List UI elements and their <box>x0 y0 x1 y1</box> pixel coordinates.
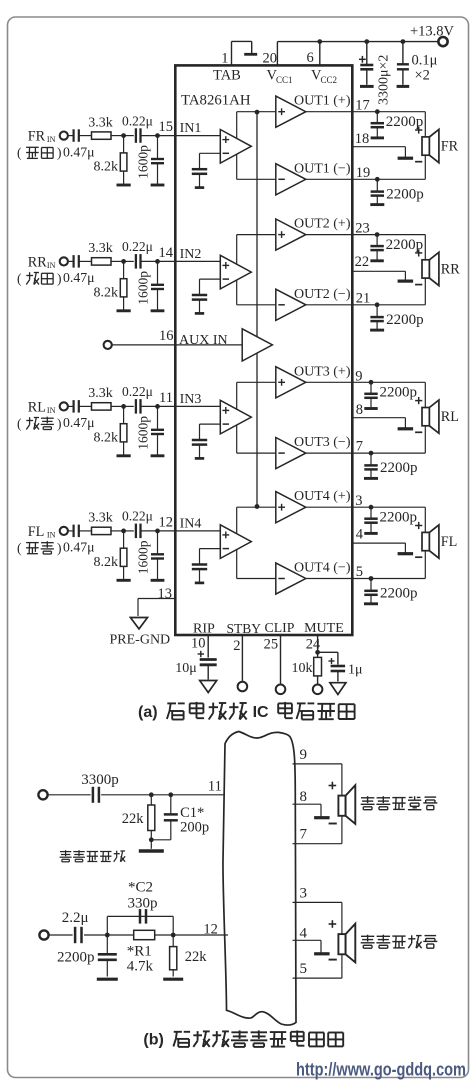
svg-text:11: 11 <box>159 390 173 406</box>
svg-text:(b): (b) <box>143 1032 163 1049</box>
svg-text:(a): (a) <box>138 704 158 721</box>
svg-text:*C2: *C2 <box>128 880 153 896</box>
svg-text:RIP: RIP <box>193 622 215 637</box>
svg-text:14: 14 <box>159 245 174 261</box>
svg-text:RL: RL <box>441 409 459 425</box>
svg-text:4.7k: 4.7k <box>127 959 154 975</box>
svg-text:0.47μ: 0.47μ <box>63 540 95 555</box>
svg-text:): ) <box>57 271 62 286</box>
svg-text:TAB: TAB <box>213 68 241 84</box>
svg-text:STBY: STBY <box>227 621 262 636</box>
svg-text:2: 2 <box>233 638 240 654</box>
svg-text:OUT2 (+): OUT2 (+) <box>294 217 351 232</box>
svg-text:(: ( <box>17 540 22 555</box>
svg-text:7: 7 <box>300 827 308 843</box>
svg-text:FR: FR <box>28 129 46 145</box>
svg-text:IN: IN <box>47 530 56 539</box>
svg-text:8: 8 <box>356 402 363 418</box>
svg-text:http://www.go-gddq.com: http://www.go-gddq.com <box>296 1060 466 1080</box>
svg-text:RR: RR <box>441 261 460 277</box>
svg-text:8: 8 <box>300 789 308 805</box>
svg-text:1μ: 1μ <box>348 663 363 678</box>
svg-text:9: 9 <box>300 747 308 763</box>
svg-text:2200p: 2200p <box>57 950 95 966</box>
svg-text:24: 24 <box>306 637 321 653</box>
svg-text:): ) <box>57 416 62 431</box>
svg-text:IN1: IN1 <box>180 121 202 136</box>
svg-text:22: 22 <box>355 254 370 270</box>
svg-text:22k: 22k <box>185 949 208 965</box>
svg-text:CC1: CC1 <box>276 75 293 85</box>
svg-text:OUT1 (−): OUT1 (−) <box>294 161 351 176</box>
svg-text:8.2k: 8.2k <box>94 555 119 570</box>
svg-text:1600p: 1600p <box>135 271 150 305</box>
svg-text:1600p: 1600p <box>135 145 150 179</box>
svg-text:3: 3 <box>300 885 308 901</box>
svg-text:15: 15 <box>159 119 174 135</box>
svg-text:OUT3 (−): OUT3 (−) <box>294 435 351 450</box>
svg-text:FR: FR <box>441 138 459 154</box>
svg-text:7: 7 <box>356 439 363 455</box>
svg-text:2200p: 2200p <box>380 460 418 476</box>
svg-text:17: 17 <box>355 98 370 114</box>
svg-text:2200p: 2200p <box>386 186 424 202</box>
svg-text:IN: IN <box>47 406 56 415</box>
svg-text:8.2k: 8.2k <box>94 430 119 445</box>
svg-text:(: ( <box>17 271 22 286</box>
svg-text:5: 5 <box>356 564 363 580</box>
svg-text:10: 10 <box>191 636 206 652</box>
svg-text:IN: IN <box>47 135 56 144</box>
svg-text:IN: IN <box>47 261 56 270</box>
svg-text:22k: 22k <box>122 811 145 827</box>
svg-text:23: 23 <box>355 221 370 237</box>
svg-text:RR: RR <box>28 254 47 270</box>
svg-text:IN2: IN2 <box>180 247 202 262</box>
svg-text:FL: FL <box>441 534 458 550</box>
svg-text:13: 13 <box>158 586 173 602</box>
svg-text:IC: IC <box>253 704 269 721</box>
svg-text:12: 12 <box>159 515 174 531</box>
svg-text:OUT2 (−): OUT2 (−) <box>294 287 351 302</box>
svg-text:3: 3 <box>355 493 362 509</box>
svg-text:10μ: 10μ <box>175 661 197 676</box>
svg-text:2200p: 2200p <box>380 385 418 401</box>
svg-text:CLIP: CLIP <box>265 620 295 635</box>
svg-text:IN4: IN4 <box>180 516 202 531</box>
svg-text:11: 11 <box>208 779 222 795</box>
svg-text:21: 21 <box>356 290 371 306</box>
svg-text:×2: ×2 <box>415 68 430 84</box>
svg-text:0.22μ: 0.22μ <box>122 113 153 128</box>
svg-text:1600p: 1600p <box>135 540 150 574</box>
svg-text:330p: 330p <box>128 896 158 912</box>
svg-text:8.2k: 8.2k <box>94 285 119 300</box>
svg-text:3300p: 3300p <box>81 772 119 788</box>
svg-text:3300μ×2: 3300μ×2 <box>377 55 392 105</box>
svg-text:0.47μ: 0.47μ <box>63 144 95 159</box>
svg-text:IN3: IN3 <box>180 392 202 407</box>
svg-text:4: 4 <box>300 925 308 941</box>
svg-text:18: 18 <box>355 131 370 147</box>
svg-text:1600p: 1600p <box>135 416 150 450</box>
svg-text:OUT1 (+): OUT1 (+) <box>294 94 351 109</box>
svg-text:MUTE: MUTE <box>304 621 344 636</box>
svg-text:0.47μ: 0.47μ <box>63 270 95 285</box>
svg-text:2.2μ: 2.2μ <box>62 910 89 926</box>
svg-text:PRE-GND: PRE-GND <box>110 633 171 648</box>
svg-text:10k: 10k <box>292 661 313 676</box>
svg-text:3.3k: 3.3k <box>88 511 113 526</box>
svg-text:19: 19 <box>356 165 371 181</box>
svg-text:OUT3 (+): OUT3 (+) <box>294 364 351 379</box>
svg-text:2200p: 2200p <box>380 510 418 526</box>
svg-text:OUT4 (−): OUT4 (−) <box>294 561 351 576</box>
svg-text:2200p: 2200p <box>386 312 424 328</box>
svg-text:+13.8V: +13.8V <box>410 24 455 40</box>
svg-text:0.1μ: 0.1μ <box>412 53 438 69</box>
svg-text:*R1: *R1 <box>127 944 152 960</box>
svg-text:2200p: 2200p <box>380 586 418 602</box>
svg-text:12: 12 <box>203 922 218 938</box>
svg-text:9: 9 <box>355 368 362 384</box>
svg-text:25: 25 <box>264 637 279 653</box>
svg-text:AUX IN: AUX IN <box>179 333 228 348</box>
svg-text:4: 4 <box>356 527 364 543</box>
svg-text:16: 16 <box>159 328 174 344</box>
svg-text:6: 6 <box>307 50 314 66</box>
svg-text:(: ( <box>17 416 22 431</box>
svg-text:): ) <box>57 540 62 555</box>
svg-text:5: 5 <box>300 961 308 977</box>
svg-text:(: ( <box>17 145 22 160</box>
svg-text:2200p: 2200p <box>386 237 424 253</box>
svg-text:FL: FL <box>28 524 45 540</box>
svg-text:): ) <box>57 145 62 160</box>
svg-text:0.47μ: 0.47μ <box>63 415 95 430</box>
svg-text:3.3k: 3.3k <box>88 386 113 401</box>
svg-text:CC2: CC2 <box>321 75 338 85</box>
svg-text:200p: 200p <box>180 820 209 836</box>
svg-text:RL: RL <box>28 399 46 415</box>
svg-text:TA8261AH: TA8261AH <box>181 93 251 109</box>
svg-text:3.3k: 3.3k <box>88 241 113 256</box>
svg-text:8.2k: 8.2k <box>94 160 119 175</box>
svg-text:3.3k: 3.3k <box>88 115 113 130</box>
svg-text:0.22μ: 0.22μ <box>122 239 153 254</box>
svg-text:2200p: 2200p <box>386 114 424 130</box>
svg-text:0.22μ: 0.22μ <box>122 509 153 524</box>
svg-text:0.22μ: 0.22μ <box>122 384 153 399</box>
svg-text:OUT4 (+): OUT4 (+) <box>294 489 351 504</box>
